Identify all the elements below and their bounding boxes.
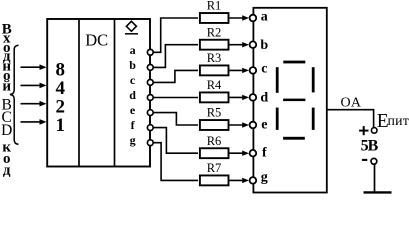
display pin g (250, 170, 268, 185)
output bubble e (147, 110, 153, 116)
resistor R6 (200, 148, 229, 158)
arrow to pin a (230, 15, 250, 20)
svg-text:1: 1 (56, 115, 66, 136)
wire OA to supply (327, 110, 374, 128)
svg-text:DC: DC (85, 31, 108, 50)
brace (10, 45, 19, 144)
arrow to pin b (230, 42, 250, 47)
svg-text:b: b (129, 58, 136, 72)
output bubble b (147, 65, 153, 71)
svg-text:g: g (261, 170, 268, 185)
display pin d (250, 91, 269, 106)
arrow to pin g (230, 178, 250, 183)
wire d (153, 97, 198, 99)
segment e lower-left bar (276, 108, 279, 130)
svg-text:f: f (262, 145, 267, 160)
svg-text:д: д (3, 163, 11, 179)
svg-text:b: b (260, 38, 268, 53)
svg-text:ОА: ОА (341, 95, 363, 110)
output bubble d (147, 95, 153, 101)
svg-text:5В: 5В (361, 137, 379, 154)
svg-text:e: e (130, 103, 136, 117)
arrow to pin f (230, 151, 250, 156)
svg-text:c: c (261, 62, 267, 77)
output bubble g (147, 140, 153, 146)
display pin a (250, 9, 268, 24)
svg-text:d: d (129, 88, 136, 102)
wire b (153, 45, 198, 68)
svg-text:R3: R3 (207, 51, 222, 65)
display pin b (250, 38, 269, 53)
ground (364, 191, 392, 193)
input arrow bit 1 (21, 119, 47, 125)
wire f (153, 128, 198, 154)
svg-text:R2: R2 (207, 25, 222, 39)
open-collector output symbol (125, 21, 138, 34)
wire g (153, 143, 198, 181)
svg-text:a: a (130, 43, 136, 57)
resistor R5 (200, 120, 229, 130)
svg-text:e: e (261, 117, 267, 132)
wire a (153, 18, 198, 52)
display pin c (250, 62, 268, 77)
svg-text:R4: R4 (207, 78, 222, 92)
svg-text:пит: пит (388, 113, 409, 128)
arrow to pin d (230, 95, 250, 100)
output bubble c (147, 80, 153, 86)
terminal - of Eпит (371, 158, 377, 164)
svg-text:R1: R1 (207, 0, 222, 12)
svg-text:R5: R5 (207, 106, 222, 120)
seven-segment indicator block (253, 8, 326, 193)
resistor R1 (200, 13, 229, 23)
output bubble a (147, 49, 153, 55)
wire e (153, 113, 198, 125)
resistor R4 (200, 92, 229, 102)
segment f upper-left bar (276, 67, 279, 93)
svg-text:R7: R7 (207, 161, 222, 175)
segment g middle bar (283, 99, 305, 102)
input arrow bit 4 (21, 83, 47, 89)
terminal + of Eпит (371, 128, 377, 134)
display pin f (250, 145, 267, 160)
resistor R3 (200, 65, 229, 75)
svg-text:f: f (131, 118, 136, 132)
minus sign (362, 159, 367, 161)
input arrow bit 2 (21, 101, 47, 107)
wire to ground (374, 164, 376, 192)
node label "Входной BCD код" (1, 21, 12, 178)
svg-text:d: d (260, 91, 268, 106)
display pin e (250, 117, 268, 132)
arrow to pin c (230, 68, 250, 73)
resistor R7 (200, 175, 229, 185)
arrow to pin e (230, 122, 250, 127)
segment c lower-right bar (312, 108, 315, 130)
segment a top bar (283, 61, 305, 64)
resistor R2 (200, 40, 229, 50)
wire c (153, 70, 198, 82)
label Eпит (377, 111, 409, 132)
svg-text:й: й (2, 78, 11, 94)
segment b upper-right bar (312, 67, 315, 92)
decoder U1 DC block (47, 19, 150, 167)
plus sign (359, 126, 368, 135)
output bubble f (147, 125, 153, 131)
svg-text:R6: R6 (207, 134, 222, 148)
svg-text:a: a (261, 9, 268, 24)
svg-text:D: D (1, 122, 12, 139)
svg-text:g: g (130, 133, 136, 147)
svg-text:c: c (130, 73, 136, 87)
segment d bottom bar (283, 137, 305, 140)
input arrow bit 8 (21, 64, 47, 70)
